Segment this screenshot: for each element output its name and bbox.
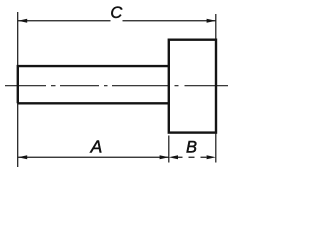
svg-text:C: C <box>110 4 122 22</box>
svg-text:B: B <box>186 139 197 157</box>
svg-text:A: A <box>90 137 103 157</box>
